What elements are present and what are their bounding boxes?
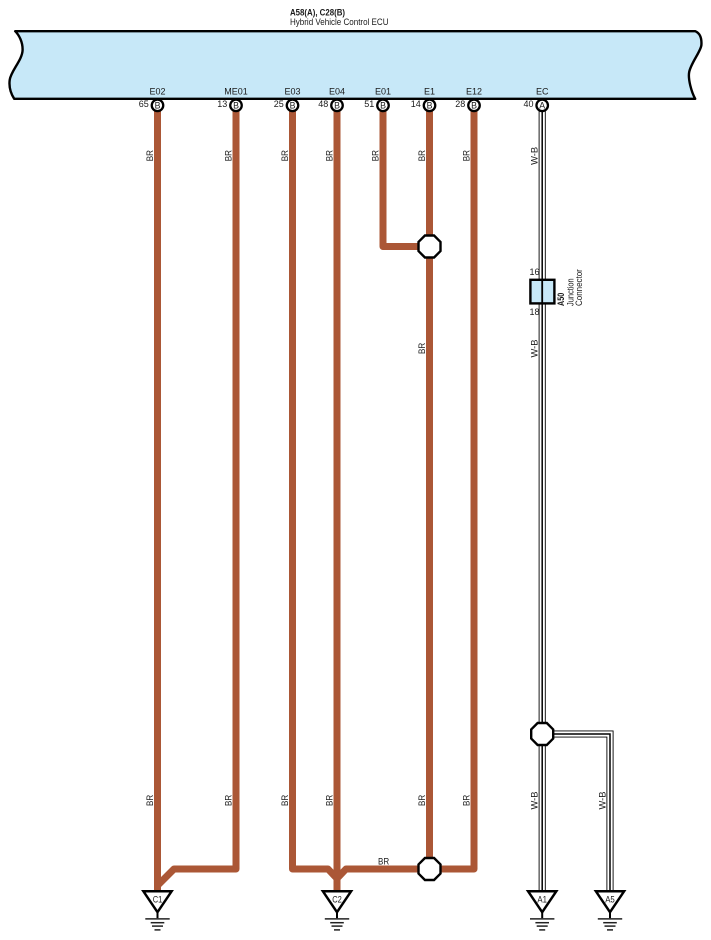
svg-text:E04: E04 xyxy=(329,87,345,97)
svg-text:B: B xyxy=(471,101,477,111)
svg-text:A1: A1 xyxy=(537,895,547,906)
svg-text:A: A xyxy=(539,101,545,111)
svg-text:A5: A5 xyxy=(605,895,615,906)
pin E12 terminal 28 (B) xyxy=(455,87,482,112)
wire BR from E03 pin 25, joins C2 drop at 45-deg chamfer xyxy=(293,109,337,878)
wire BR from E12 pin 28 to lower junction octagon xyxy=(441,109,474,869)
svg-text:E02: E02 xyxy=(149,87,165,97)
wire BR from E04 pin 48 to ground C2 xyxy=(334,109,341,891)
pin E01 terminal 51 (B) xyxy=(364,87,391,112)
svg-text:B: B xyxy=(233,101,239,111)
wire W-B branch from right junction octagon to ground A5 xyxy=(552,731,613,891)
svg-text:BR: BR xyxy=(417,794,427,806)
svg-text:BR: BR xyxy=(280,150,290,162)
wire BR horizontal from lower junction to C2 drop with 45-deg chamfer xyxy=(337,869,418,879)
junction octagon joining E1, E12 and ground C2 wires xyxy=(419,858,441,880)
svg-text:BR: BR xyxy=(223,150,233,162)
ECU banner A58(A), C28(B) Hybrid Vehicle Control ECU xyxy=(9,31,701,99)
ground point C1 xyxy=(143,891,171,930)
svg-text:Connector: Connector xyxy=(574,269,584,306)
wire BR from E02 pin 65 to ground C1 xyxy=(154,109,161,891)
wire BR from E01 pin 51 to upper junction octagon xyxy=(383,109,418,247)
svg-text:W-B: W-B xyxy=(597,792,607,810)
svg-text:BR: BR xyxy=(370,150,380,162)
ground point C2 xyxy=(323,891,351,930)
svg-text:14: 14 xyxy=(411,99,421,109)
pin ME01 terminal 13 (B) xyxy=(217,87,247,112)
svg-text:25: 25 xyxy=(274,99,284,109)
svg-text:13: 13 xyxy=(217,99,227,109)
junction octagon joining E01 and E1 wires xyxy=(419,236,441,258)
svg-text:Hybrid Vehicle Control ECU: Hybrid Vehicle Control ECU xyxy=(290,17,389,27)
svg-text:E1: E1 xyxy=(424,87,435,97)
wire W-B from EC pin 40 through A50 to right junction octagon xyxy=(539,109,545,723)
svg-text:W-B: W-B xyxy=(530,147,540,165)
svg-text:E03: E03 xyxy=(284,87,300,97)
junction octagon on W-B wire splitting to grounds A1 and A5 xyxy=(531,723,553,745)
svg-text:B: B xyxy=(155,101,161,111)
svg-text:W-B: W-B xyxy=(530,340,540,358)
pin E04 terminal 48 (B) xyxy=(318,87,345,112)
svg-text:18: 18 xyxy=(529,307,539,317)
wire BR from E1 pin 14 to upper junction octagon xyxy=(426,109,433,236)
pin E03 terminal 25 (B) xyxy=(274,87,301,112)
ground point A1 xyxy=(528,891,556,930)
pin E1 terminal 14 (B) xyxy=(411,87,435,112)
svg-text:BR: BR xyxy=(145,794,155,806)
svg-text:BR: BR xyxy=(223,794,233,806)
svg-text:BR: BR xyxy=(417,342,427,354)
pin EC terminal 40 (A) xyxy=(523,87,548,112)
svg-text:51: 51 xyxy=(364,99,374,109)
svg-text:B: B xyxy=(427,101,433,111)
svg-text:BR: BR xyxy=(417,150,427,162)
svg-text:EC: EC xyxy=(536,87,549,97)
svg-text:BR: BR xyxy=(461,794,471,806)
svg-text:BR: BR xyxy=(461,150,471,162)
svg-text:B: B xyxy=(290,101,296,111)
wire BR from upper junction down to lower junction octagon xyxy=(426,257,433,859)
svg-text:16: 16 xyxy=(529,267,539,277)
svg-text:C1: C1 xyxy=(153,895,163,906)
svg-text:C2: C2 xyxy=(332,895,342,906)
svg-text:28: 28 xyxy=(455,99,465,109)
svg-text:BR: BR xyxy=(324,150,334,162)
svg-text:BR: BR xyxy=(145,150,155,162)
wire BR from ME01 pin 13, joins E02 wire at 45-deg chamfer xyxy=(159,109,237,885)
svg-text:65: 65 xyxy=(139,99,149,109)
svg-text:ME01: ME01 xyxy=(224,87,248,97)
pin E02 terminal 65 (B) xyxy=(139,87,166,112)
svg-text:E01: E01 xyxy=(375,87,391,97)
svg-text:BR: BR xyxy=(324,794,334,806)
wire W-B from right junction octagon to ground A1 xyxy=(539,745,545,891)
svg-text:BR: BR xyxy=(378,856,390,866)
svg-text:B: B xyxy=(334,101,340,111)
svg-text:40: 40 xyxy=(523,99,533,109)
svg-text:BR: BR xyxy=(280,794,290,806)
svg-text:A50: A50 xyxy=(556,293,566,306)
svg-text:B: B xyxy=(380,101,386,111)
junction connector A50 (pins 16/18) xyxy=(529,267,584,317)
svg-text:48: 48 xyxy=(318,99,328,109)
svg-text:W-B: W-B xyxy=(530,792,540,810)
svg-text:E12: E12 xyxy=(466,87,482,97)
ground point A5 xyxy=(596,891,624,930)
